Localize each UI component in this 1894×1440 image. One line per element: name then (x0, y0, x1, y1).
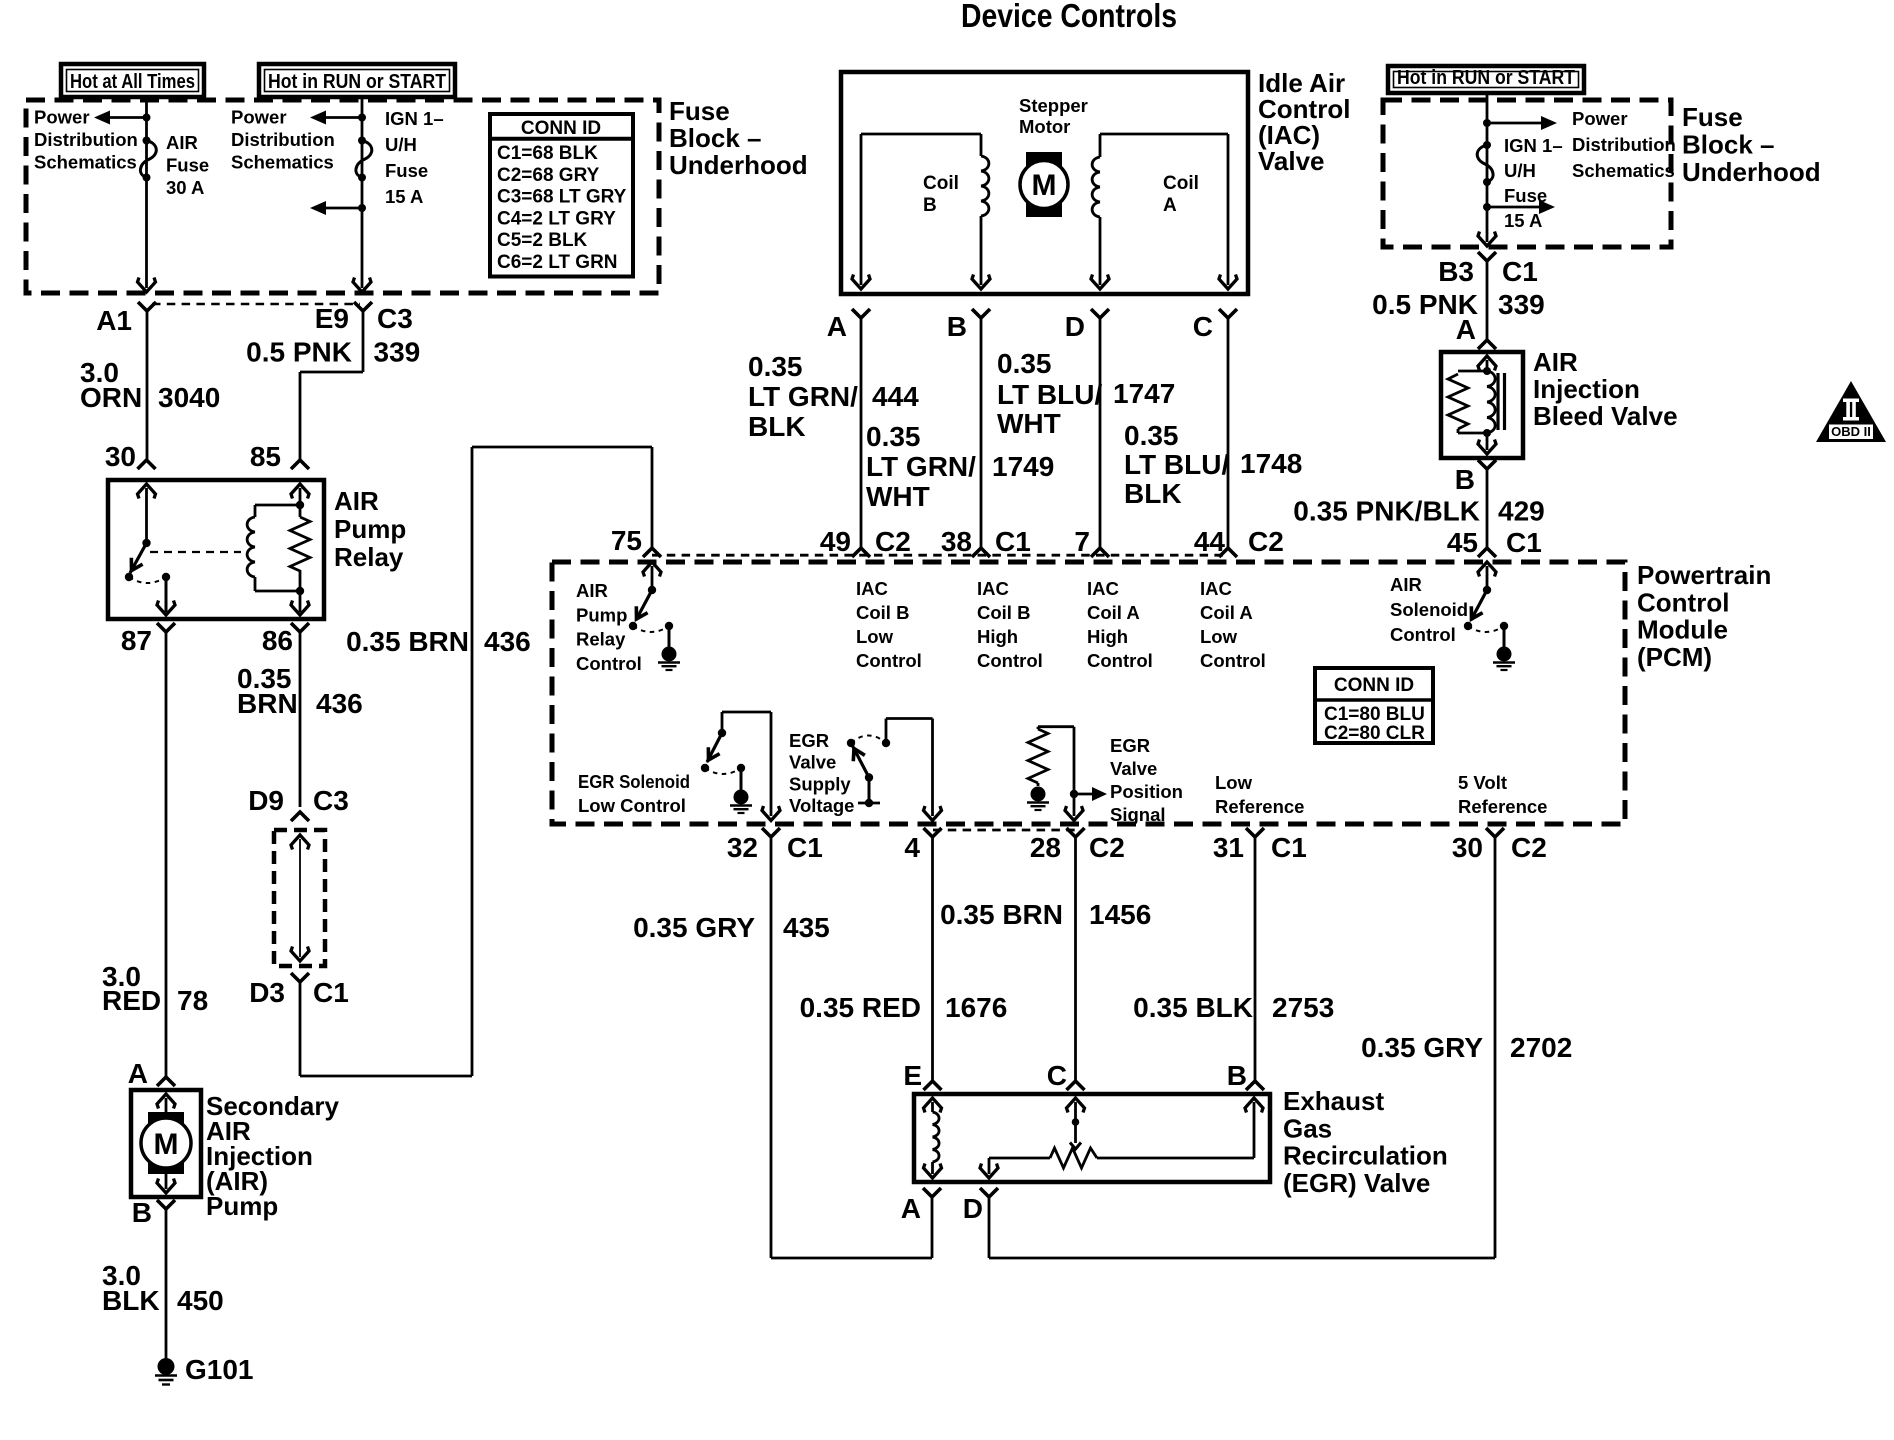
svg-text:Supply: Supply (789, 773, 851, 794)
svg-text:Voltage: Voltage (789, 795, 854, 816)
svg-text:Hot in RUN or START: Hot in RUN or START (268, 71, 446, 93)
svg-text:Hot at All Times: Hot at All Times (70, 71, 195, 93)
svg-text:AIR: AIR (1390, 574, 1422, 595)
svg-text:Control: Control (576, 653, 642, 674)
svg-text:A: A (827, 311, 847, 342)
svg-text:AIR: AIR (334, 486, 379, 516)
svg-text:IGN 1–: IGN 1– (385, 108, 444, 129)
svg-text:Coil: Coil (923, 173, 959, 194)
svg-text:LT GRN/: LT GRN/ (748, 381, 858, 412)
svg-text:339: 339 (1498, 289, 1545, 320)
svg-text:Fuse: Fuse (1682, 102, 1743, 132)
svg-text:Coil: Coil (1163, 173, 1199, 194)
svg-text:Control: Control (977, 650, 1043, 671)
svg-text:0.35: 0.35 (997, 348, 1052, 379)
svg-text:OBD II: OBD II (1831, 424, 1871, 439)
svg-text:Powertrain: Powertrain (1637, 560, 1771, 590)
svg-text:AIR: AIR (166, 132, 198, 153)
svg-text:B: B (1227, 1060, 1247, 1091)
svg-text:0.35 BLK: 0.35 BLK (1133, 992, 1253, 1023)
svg-text:0.35 BRN: 0.35 BRN (346, 626, 469, 657)
svg-text:0.35: 0.35 (1124, 420, 1179, 451)
svg-text:M: M (1032, 169, 1057, 202)
svg-text:Coil B: Coil B (856, 602, 909, 623)
svg-text:EGR Solenoid: EGR Solenoid (578, 771, 690, 792)
svg-text:Fuse: Fuse (1504, 185, 1547, 206)
svg-text:AIR: AIR (1533, 347, 1578, 377)
svg-text:BLK: BLK (102, 1285, 160, 1316)
svg-text:Control: Control (1637, 587, 1729, 617)
svg-text:Solenoid: Solenoid (1390, 599, 1468, 620)
svg-text:C2=80 CLR: C2=80 CLR (1324, 723, 1425, 744)
svg-text:436: 436 (316, 688, 363, 719)
svg-text:LT GRN/: LT GRN/ (866, 451, 976, 482)
svg-text:IAC: IAC (856, 578, 888, 599)
svg-text:32: 32 (727, 832, 758, 863)
svg-text:Control: Control (856, 650, 922, 671)
svg-text:Relay: Relay (576, 629, 626, 650)
svg-text:BLK: BLK (1124, 478, 1182, 509)
svg-text:LT BLU/: LT BLU/ (1124, 449, 1229, 480)
svg-text:435: 435 (783, 912, 830, 943)
svg-text:A: A (901, 1193, 921, 1224)
svg-text:Injection: Injection (1533, 374, 1640, 404)
svg-text:C3=68 LT GRY: C3=68 LT GRY (497, 187, 627, 208)
svg-text:15 A: 15 A (1504, 210, 1542, 231)
svg-text:C5=2 BLK: C5=2 BLK (497, 230, 588, 251)
svg-text:1456: 1456 (1089, 899, 1151, 930)
svg-text:BLK: BLK (748, 411, 806, 442)
svg-text:B: B (923, 195, 937, 216)
svg-text:Bleed Valve: Bleed Valve (1533, 401, 1678, 431)
svg-text:85: 85 (250, 441, 281, 472)
svg-text:Valve: Valve (1258, 146, 1325, 176)
svg-text:Underhood: Underhood (669, 150, 808, 180)
svg-text:31: 31 (1213, 832, 1244, 863)
svg-text:EGR: EGR (1110, 735, 1150, 756)
svg-text:Distribution: Distribution (1572, 134, 1676, 155)
svg-text:High: High (977, 626, 1018, 647)
svg-text:U/H: U/H (1504, 160, 1536, 181)
svg-text:Low: Low (1200, 626, 1238, 647)
svg-text:High: High (1087, 626, 1128, 647)
svg-text:B: B (947, 311, 967, 342)
svg-text:C1=68 BLK: C1=68 BLK (497, 143, 598, 164)
svg-text:E9: E9 (315, 303, 349, 334)
svg-text:Coil B: Coil B (977, 602, 1030, 623)
svg-text:Coil A: Coil A (1087, 602, 1140, 623)
svg-text:Fuse: Fuse (669, 96, 730, 126)
svg-text:B: B (132, 1197, 152, 1228)
svg-text:5 Volt: 5 Volt (1458, 772, 1507, 793)
svg-text:429: 429 (1498, 496, 1545, 527)
svg-text:44: 44 (1194, 526, 1226, 557)
svg-text:Motor: Motor (1019, 116, 1070, 137)
svg-text:Block –: Block – (669, 123, 762, 153)
svg-text:C1: C1 (995, 526, 1031, 557)
svg-text:28: 28 (1030, 832, 1061, 863)
svg-text:7: 7 (1074, 526, 1090, 557)
svg-text:EGR: EGR (789, 730, 829, 751)
svg-text:Reference: Reference (1215, 796, 1304, 817)
svg-text:3040: 3040 (158, 382, 220, 413)
svg-text:G101: G101 (185, 1354, 254, 1385)
svg-text:(PCM): (PCM) (1637, 642, 1712, 672)
svg-text:75: 75 (611, 525, 642, 556)
svg-text:Coil A: Coil A (1200, 602, 1253, 623)
svg-text:D3: D3 (249, 977, 285, 1008)
svg-text:A: A (1456, 314, 1476, 345)
svg-text:Low Control: Low Control (578, 795, 686, 816)
svg-text:Device Controls: Device Controls (961, 0, 1177, 34)
svg-text:Fuse: Fuse (385, 160, 428, 181)
svg-text:Underhood: Underhood (1682, 157, 1821, 187)
svg-text:C2: C2 (875, 526, 911, 557)
svg-text:C1: C1 (787, 832, 823, 863)
svg-text:0.35: 0.35 (866, 421, 921, 452)
svg-text:C1: C1 (1502, 256, 1538, 287)
svg-text:30: 30 (1452, 832, 1483, 863)
svg-text:IAC: IAC (1200, 578, 1232, 599)
svg-text:RED: RED (102, 985, 161, 1016)
svg-text:E: E (903, 1060, 922, 1091)
svg-text:C1: C1 (313, 977, 349, 1008)
svg-text:Pump: Pump (576, 604, 627, 625)
svg-text:0.35 GRY: 0.35 GRY (1361, 1032, 1483, 1063)
svg-text:1747: 1747 (1113, 378, 1175, 409)
svg-text:C2: C2 (1511, 832, 1547, 863)
svg-text:4: 4 (904, 832, 920, 863)
svg-text:AIR: AIR (576, 580, 608, 601)
svg-text:C1=80 BLU: C1=80 BLU (1324, 704, 1425, 725)
svg-text:Exhaust: Exhaust (1283, 1086, 1384, 1116)
svg-text:0.35 PNK/BLK: 0.35 PNK/BLK (1293, 496, 1480, 527)
svg-text:Reference: Reference (1458, 796, 1547, 817)
svg-text:C: C (1047, 1060, 1067, 1091)
svg-text:B3: B3 (1438, 256, 1474, 287)
svg-text:Position: Position (1110, 781, 1183, 802)
svg-text:339: 339 (374, 337, 421, 368)
svg-text:WHT: WHT (866, 481, 930, 512)
svg-text:436: 436 (484, 626, 531, 657)
svg-text:Recirculation: Recirculation (1283, 1141, 1448, 1171)
svg-text:CONN ID: CONN ID (521, 118, 601, 139)
svg-text:Pump: Pump (334, 514, 406, 544)
svg-text:Block –: Block – (1682, 130, 1775, 160)
svg-text:Distribution: Distribution (231, 129, 335, 150)
svg-text:86: 86 (262, 625, 293, 656)
svg-text:1748: 1748 (1240, 448, 1302, 479)
svg-text:Control: Control (1200, 650, 1266, 671)
svg-text:Distribution: Distribution (34, 129, 138, 150)
svg-text:M: M (154, 1128, 179, 1161)
svg-text:C2=68 GRY: C2=68 GRY (497, 165, 600, 186)
svg-text:Control: Control (1390, 624, 1456, 645)
svg-text:Fuse: Fuse (166, 154, 209, 175)
svg-text:C: C (1193, 311, 1213, 342)
svg-text:A1: A1 (96, 305, 132, 336)
svg-text:1749: 1749 (992, 451, 1054, 482)
svg-text:Stepper: Stepper (1019, 95, 1088, 116)
svg-text:78: 78 (177, 985, 208, 1016)
svg-text:Low: Low (856, 626, 894, 647)
svg-text:Control: Control (1087, 650, 1153, 671)
svg-text:2753: 2753 (1272, 992, 1334, 1023)
svg-text:C1: C1 (1506, 527, 1542, 558)
svg-text:U/H: U/H (385, 134, 417, 155)
svg-text:C6=2 LT GRN: C6=2 LT GRN (497, 252, 618, 273)
svg-text:Schematics: Schematics (1572, 160, 1675, 181)
svg-text:C3: C3 (313, 785, 349, 816)
svg-text:0.35 BRN: 0.35 BRN (940, 899, 1063, 930)
svg-text:30 A: 30 A (166, 177, 204, 198)
svg-text:IAC: IAC (977, 578, 1009, 599)
svg-text:Gas: Gas (1283, 1113, 1332, 1143)
svg-text:(EGR) Valve: (EGR) Valve (1283, 1168, 1430, 1198)
svg-text:C2: C2 (1089, 832, 1125, 863)
svg-text:1676: 1676 (945, 992, 1007, 1023)
svg-text:WHT: WHT (997, 408, 1061, 439)
svg-text:Signal: Signal (1110, 804, 1166, 825)
svg-text:0.35: 0.35 (748, 351, 803, 382)
svg-text:Schematics: Schematics (34, 152, 137, 173)
svg-text:Power: Power (1572, 108, 1628, 129)
svg-text:Power: Power (231, 107, 287, 128)
svg-text:C2: C2 (1248, 526, 1284, 557)
svg-text:C4=2 LT GRY: C4=2 LT GRY (497, 208, 616, 229)
svg-text:2702: 2702 (1510, 1032, 1572, 1063)
svg-text:Hot in RUN or START: Hot in RUN or START (1397, 67, 1575, 89)
svg-text:0.35 GRY: 0.35 GRY (633, 912, 755, 943)
svg-text:15 A: 15 A (385, 186, 423, 207)
svg-text:49: 49 (820, 526, 851, 557)
svg-text:Valve: Valve (1110, 758, 1157, 779)
svg-text:0.5 PNK: 0.5 PNK (246, 337, 352, 368)
svg-text:38: 38 (941, 526, 972, 557)
svg-text:IAC: IAC (1087, 578, 1119, 599)
svg-text:87: 87 (121, 625, 152, 656)
svg-text:444: 444 (872, 381, 919, 412)
svg-text:0.35 RED: 0.35 RED (800, 992, 921, 1023)
svg-text:D: D (1065, 311, 1085, 342)
svg-text:Valve: Valve (789, 752, 836, 773)
svg-text:BRN: BRN (237, 688, 298, 719)
svg-text:Power: Power (34, 107, 90, 128)
svg-text:D9: D9 (248, 785, 284, 816)
svg-text:Module: Module (1637, 615, 1728, 645)
svg-text:D: D (963, 1193, 983, 1224)
svg-text:LT BLU/: LT BLU/ (997, 379, 1102, 410)
svg-text:Low: Low (1215, 772, 1253, 793)
svg-text:CONN ID: CONN ID (1334, 675, 1414, 696)
svg-text:Pump: Pump (206, 1191, 278, 1221)
svg-text:A: A (1163, 195, 1177, 216)
svg-text:A: A (128, 1058, 148, 1089)
svg-text:Schematics: Schematics (231, 152, 334, 173)
svg-text:45: 45 (1447, 527, 1478, 558)
svg-text:B: B (1455, 464, 1475, 495)
svg-text:ORN: ORN (80, 382, 142, 413)
svg-text:C1: C1 (1271, 832, 1307, 863)
svg-text:30: 30 (105, 441, 136, 472)
svg-text:IGN 1–: IGN 1– (1504, 135, 1563, 156)
svg-text:C3: C3 (377, 303, 413, 334)
svg-text:Relay: Relay (334, 542, 404, 572)
svg-text:450: 450 (177, 1285, 224, 1316)
